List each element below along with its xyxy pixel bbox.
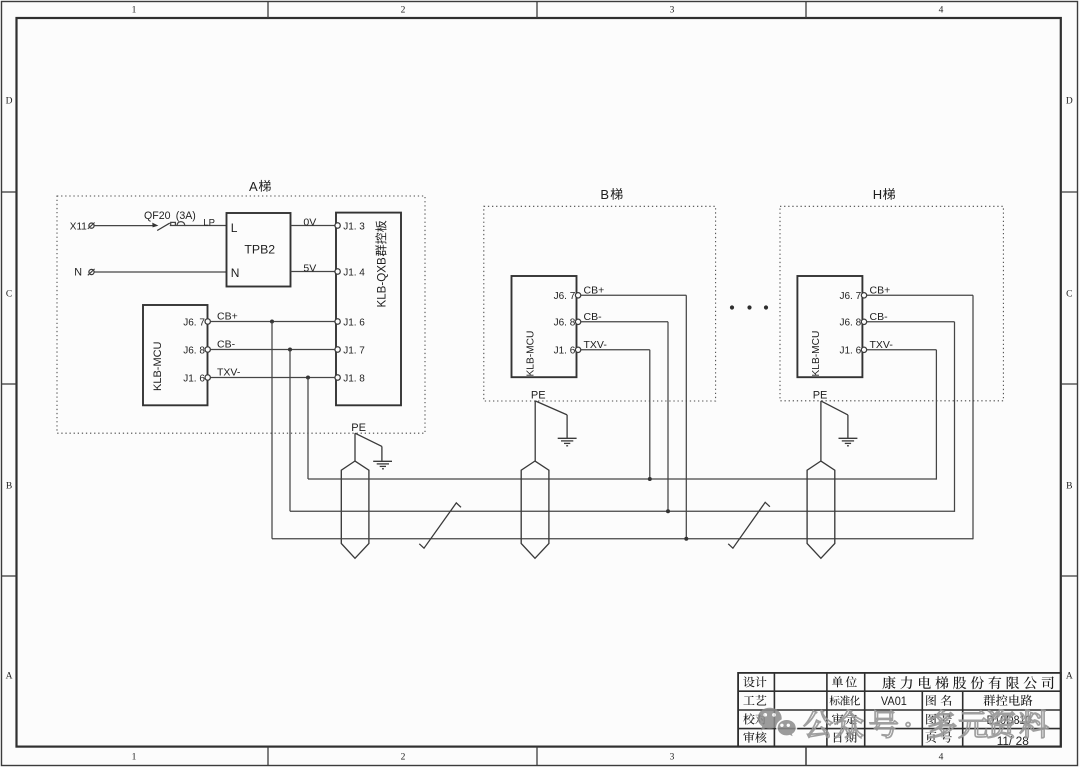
zone divider under title (805, 747, 807, 766)
title block 标准化 (830, 695, 861, 705)
svg-text:LP: LP (203, 217, 215, 228)
junction dot CB+ A (270, 320, 274, 324)
svg-text:4: 4 (939, 6, 944, 16)
MCU KLB-MCU H (797, 276, 862, 377)
MCU KLB-MCU B (512, 276, 577, 377)
svg-text:J6. 8: J6. 8 (183, 345, 205, 356)
svg-text:J1. 4: J1. 4 (343, 267, 365, 278)
wire CB- H (867, 311, 955, 512)
board KLB-QXB A (336, 213, 401, 406)
svg-text:CB+: CB+ (584, 284, 605, 296)
svg-text:N: N (231, 266, 240, 280)
terminal X11 (70, 222, 95, 233)
company name 康力电梯股份有限公司 (882, 676, 1053, 689)
svg-text:J6. 7: J6. 7 (840, 291, 862, 302)
wire TXV- H (867, 339, 937, 480)
wire CB+ H (867, 284, 973, 539)
pin J1. 7 on KLB-QXB A (335, 345, 365, 356)
svg-text:3: 3 (670, 752, 675, 762)
bus wire TXV- (308, 478, 936, 480)
svg-text:D: D (1066, 96, 1073, 106)
svg-text:TXV-: TXV- (217, 367, 241, 379)
transformer TPB2 (227, 213, 291, 287)
pin J6. 7 on KLB-MCU A (183, 317, 210, 328)
bus wire CB- (290, 510, 955, 512)
svg-text:2: 2 (401, 752, 406, 762)
svg-text:(3A): (3A) (176, 210, 196, 222)
svg-text:J1. 6: J1. 6 (183, 373, 205, 384)
elevator B group box (484, 206, 716, 401)
title block field labels (743, 676, 952, 743)
PE ground H (813, 389, 858, 461)
elevator A group box (57, 196, 425, 433)
wire N to TPB2 (94, 271, 226, 273)
svg-text:J1. 6: J1. 6 (840, 346, 862, 357)
junction dot CB- B (666, 509, 670, 513)
svg-text:QF20: QF20 (144, 210, 171, 222)
title block (738, 673, 1061, 747)
svg-text:0V: 0V (303, 217, 316, 229)
svg-text:C: C (6, 289, 12, 299)
label H ladder (873, 187, 895, 202)
svg-text:CB-: CB- (584, 311, 603, 323)
svg-text:B: B (600, 187, 609, 202)
PE ground B (531, 389, 577, 461)
pin J1. 8 on KLB-QXB A (335, 373, 365, 384)
junction dot TXV- A (306, 376, 310, 380)
pin J6. 7 on KLB-MCU H (840, 291, 867, 302)
pin J1. 3 on KLB-QXB A (335, 221, 365, 232)
label B ladder (600, 187, 622, 202)
wire 5V (291, 263, 335, 275)
shielded cable B (521, 461, 549, 558)
svg-text:J6. 8: J6. 8 (840, 318, 862, 329)
MCU KLB-MCU A (143, 305, 208, 405)
wire CB- A (210, 339, 335, 351)
svg-text:TXV-: TXV- (870, 339, 894, 351)
wire TXV- B (581, 339, 650, 479)
wire X11 to breaker (94, 225, 154, 227)
svg-text:A: A (6, 671, 13, 681)
svg-text:KLB-MCU: KLB-MCU (525, 331, 536, 377)
junction dot TXV- B (648, 477, 652, 481)
shielded cable A (341, 461, 369, 558)
label A ladder (249, 179, 271, 194)
svg-text:TXV-: TXV- (584, 339, 608, 351)
wire CB- B (581, 311, 668, 511)
svg-text:TPB2: TPB2 (244, 242, 275, 256)
cable slash 1 (419, 503, 461, 548)
wire 0V (291, 217, 335, 229)
svg-text:PE: PE (531, 389, 546, 401)
pin J1. 4 on KLB-QXB A (335, 267, 365, 278)
svg-text:J6. 8: J6. 8 (554, 318, 576, 329)
PE ground A (351, 422, 392, 469)
bus wire CB+ (272, 538, 973, 540)
breaker QF20 (3A) (144, 210, 227, 231)
pin J6. 8 on KLB-MCU B (554, 318, 581, 329)
svg-text:3: 3 (670, 6, 675, 16)
wire CB+ B (581, 284, 687, 538)
wire CB+ A (210, 311, 335, 323)
pin J1. 6 on KLB-MCU A (183, 373, 210, 384)
shielded cable H (807, 461, 835, 558)
svg-text:VA01: VA01 (881, 694, 907, 708)
svg-text:PE: PE (351, 422, 366, 434)
svg-text:B: B (6, 481, 12, 491)
svg-text:C: C (1066, 289, 1072, 299)
wire drop CB- A (289, 350, 291, 512)
terminal N (74, 266, 94, 278)
svg-text:J6. 7: J6. 7 (183, 317, 205, 328)
pin J6. 7 on KLB-MCU B (554, 291, 581, 302)
svg-text:J1. 7: J1. 7 (343, 345, 365, 356)
svg-text:5V: 5V (303, 263, 316, 275)
svg-text:KLB-MCU: KLB-MCU (811, 331, 822, 377)
svg-text:CB+: CB+ (870, 284, 891, 296)
svg-text:L: L (231, 221, 238, 235)
drawing name 群控电路 (984, 695, 1033, 706)
svg-text:KLB-MCU: KLB-MCU (152, 341, 164, 391)
svg-text:X11: X11 (70, 222, 87, 233)
wire TXV- A (210, 367, 335, 379)
svg-text:J1. 6: J1. 6 (343, 317, 365, 328)
svg-text:J6. 7: J6. 7 (554, 291, 576, 302)
watermark wechat icon (758, 708, 797, 738)
junction dot CB+ B (684, 537, 688, 541)
pin J1. 6 on KLB-QXB A (335, 317, 365, 328)
wire drop CB+ A (271, 322, 273, 539)
svg-text:KLB-QXB: KLB-QXB (376, 257, 389, 308)
pin J1. 6 on KLB-MCU H (840, 346, 867, 357)
svg-text:H: H (873, 187, 882, 202)
svg-text:J1. 3: J1. 3 (343, 221, 365, 232)
pin J6. 8 on KLB-MCU A (183, 345, 210, 356)
svg-text:2: 2 (401, 6, 406, 16)
wire drop TXV- A (307, 378, 309, 480)
svg-text:1: 1 (132, 6, 137, 16)
ellipsis node dots (730, 305, 768, 309)
svg-text:1: 1 (132, 752, 137, 762)
junction dot CB- A (288, 348, 292, 352)
svg-text:N: N (74, 266, 82, 278)
svg-text:J1. 6: J1. 6 (554, 346, 576, 357)
svg-text:D: D (6, 96, 13, 106)
svg-text:B: B (1066, 481, 1072, 491)
svg-text:PE: PE (813, 389, 828, 401)
svg-text:CB+: CB+ (217, 311, 238, 323)
pin J1. 6 on KLB-MCU B (554, 346, 581, 357)
svg-text:CB-: CB- (217, 339, 236, 351)
svg-text:CB-: CB- (870, 311, 889, 323)
elevator H group box (780, 206, 1003, 400)
svg-text:4: 4 (939, 752, 944, 762)
svg-text:J1. 8: J1. 8 (343, 373, 365, 384)
cable slash 2 (728, 502, 770, 548)
pin J6. 8 on KLB-MCU H (840, 318, 867, 329)
svg-text:A: A (249, 179, 258, 194)
svg-text:A: A (1066, 671, 1073, 681)
watermark text 公众号·多元资料 (804, 710, 1049, 738)
